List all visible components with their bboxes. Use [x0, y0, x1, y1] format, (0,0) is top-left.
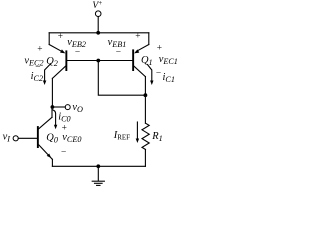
wire Q2 collector down [51, 78, 53, 107]
transistor Q0 [37, 107, 53, 166]
svg-text:+: + [135, 32, 140, 42]
junction mirror [144, 93, 148, 97]
wire top rail [49, 32, 149, 34]
transistor Q1 [132, 33, 149, 77]
junction ground [96, 164, 100, 168]
svg-text:−: − [156, 69, 161, 79]
svg-text:+: + [157, 44, 162, 54]
wire Q1 collector down to resistor [144, 77, 146, 124]
node vO terminal [65, 105, 70, 110]
svg-text:−: − [61, 148, 66, 158]
current arrow iC2 [43, 64, 51, 85]
svg-text:+: + [37, 44, 42, 54]
transistor Q2 [49, 33, 67, 79]
junction base bus [96, 59, 100, 63]
svg-text:+: + [58, 32, 63, 42]
wire base to mirror connection [98, 61, 145, 96]
junction V+ on rail [96, 31, 100, 35]
current arrow iC0 [52, 110, 57, 130]
resistor R1 [142, 123, 149, 166]
wire to vO terminal [52, 106, 65, 108]
svg-text:−: − [35, 63, 40, 73]
svg-text:−: − [75, 48, 80, 58]
junction node vO [51, 105, 55, 109]
current arrow iC1 [147, 65, 153, 86]
svg-text:+: + [62, 124, 67, 134]
node vI terminal [13, 136, 37, 141]
wire bottom rail [52, 165, 145, 167]
svg-text:−: − [116, 48, 121, 58]
ground [92, 166, 104, 185]
wire base bus Q2-Q1 [67, 60, 132, 62]
power terminal V+ [95, 11, 101, 33]
current arrow IREF [136, 122, 139, 143]
